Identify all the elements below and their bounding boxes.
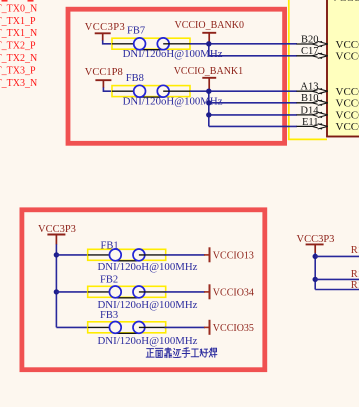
wire FB3 to port bbox=[164, 326, 205, 328]
wire to R3 bbox=[315, 289, 359, 291]
power port VCCIO_BANK0 bbox=[175, 20, 244, 44]
svg-text:VCCO_: VCCO_ bbox=[336, 98, 359, 110]
pin name (cut at top) bbox=[331, 0, 359, 4]
pin C17 bbox=[297, 46, 359, 62]
svg-text:R1: R1 bbox=[351, 269, 359, 280]
ferrite bead FB8 bbox=[112, 85, 190, 97]
svg-text:R1: R1 bbox=[351, 280, 359, 291]
svg-text:FB8: FB8 bbox=[126, 73, 144, 84]
svg-text:FB7: FB7 bbox=[127, 26, 145, 37]
wire FB8 to pin A13 bbox=[190, 90, 297, 92]
wire to pin B10 bbox=[209, 102, 297, 104]
svg-text:FB2: FB2 bbox=[100, 275, 118, 286]
svg-text:VCCIO_BANK0: VCCIO_BANK0 bbox=[175, 20, 244, 31]
wire VCC3P3 to FB7 bbox=[103, 40, 112, 44]
value DNI/120oH@100MHz bbox=[98, 299, 198, 311]
pin B10 bbox=[297, 93, 359, 109]
net label _TX3_N bbox=[0, 78, 37, 89]
wire to FB1 bbox=[56, 254, 87, 256]
pin E11 bbox=[297, 117, 359, 133]
junction FB1 bbox=[54, 252, 59, 257]
wire to pin E11 bbox=[209, 125, 297, 127]
designator FB7 bbox=[127, 26, 145, 37]
power port VCC3P3 (top) bbox=[85, 22, 125, 41]
port VCCIO34 bbox=[204, 284, 254, 299]
designator R1 (cut) bbox=[351, 245, 359, 256]
wire to R1 bbox=[315, 255, 359, 257]
svg-text:VCC3P3: VCC3P3 bbox=[38, 224, 76, 235]
wire FB1 to port bbox=[164, 254, 205, 256]
net label _TX2_P bbox=[0, 41, 36, 52]
wire to pin C17 bbox=[209, 55, 297, 57]
svg-text:VCCIO_BANK1: VCCIO_BANK1 bbox=[174, 66, 243, 77]
svg-text:FB3: FB3 bbox=[100, 310, 118, 321]
value DNI/120oH@100MHz bbox=[98, 261, 198, 273]
net label _TX1_P bbox=[0, 16, 36, 27]
pin B20 bbox=[297, 34, 359, 50]
designator R2 (cut) bbox=[351, 269, 359, 280]
net label _TX1_N bbox=[0, 28, 37, 39]
junction FB2 bbox=[54, 289, 59, 294]
wire vertical bank1 bbox=[208, 91, 210, 126]
net label _TX3_P bbox=[0, 65, 36, 76]
value DNI/120oH@100MHz bbox=[123, 96, 223, 108]
pin A13 bbox=[297, 82, 359, 98]
junction bank1 c bbox=[206, 112, 211, 117]
junction bank1 a bbox=[206, 89, 211, 94]
value DNI/120oH@100MHz bbox=[123, 48, 223, 60]
net label _TX0_N bbox=[0, 3, 37, 14]
svg-text:DNI/120oH@100MHz: DNI/120oH@100MHz bbox=[123, 48, 223, 60]
note text (Chinese): 正面靠边手工好焊 bbox=[146, 348, 217, 358]
ferrite bead FB1 bbox=[88, 249, 166, 261]
wire to FB3 bbox=[56, 326, 87, 328]
junction bank1 b bbox=[206, 100, 211, 105]
svg-text:T_TX3_N: T_TX3_N bbox=[0, 78, 37, 89]
red callout box bottom bbox=[22, 210, 265, 370]
svg-text:VCCO_: VCCO_ bbox=[336, 51, 359, 63]
ferrite bead FB7 bbox=[112, 38, 190, 50]
wire to FB2 bbox=[56, 291, 87, 293]
yellow sheet line bbox=[289, 0, 327, 139]
power port VCC3P3 (right) bbox=[297, 234, 335, 253]
svg-text:T_TX1_N: T_TX1_N bbox=[0, 28, 37, 39]
junction R a bbox=[313, 254, 318, 259]
wire to pin D14 bbox=[209, 114, 297, 116]
wire VCC1P8 to FB8 bbox=[103, 87, 112, 91]
wire FB7 to pins B20 bbox=[190, 43, 297, 45]
svg-text:VCCIO34: VCCIO34 bbox=[213, 288, 254, 299]
svg-text:VCCO_: VCCO_ bbox=[336, 86, 359, 98]
power port VCC1P8 bbox=[85, 67, 123, 88]
IC block U1 (FPGA bank power pins, clipped at right edge) bbox=[327, 0, 359, 137]
svg-text:T_TX2_N: T_TX2_N bbox=[0, 53, 37, 64]
designator FB3 bbox=[100, 310, 118, 321]
power port VCCIO_BANK1 bbox=[174, 66, 243, 91]
pin D14 bbox=[297, 105, 359, 121]
wire FB2 to port bbox=[164, 291, 205, 293]
svg-text:VCC3P3: VCC3P3 bbox=[297, 234, 335, 245]
wire VCC3P3 vertical feed bbox=[55, 244, 57, 327]
svg-text:VCCO_: VCCO_ bbox=[336, 121, 359, 133]
svg-text:R1: R1 bbox=[351, 245, 359, 256]
designator R3 (cut) bbox=[351, 280, 359, 291]
ferrite bead FB2 bbox=[88, 286, 166, 298]
net label _TX2_N bbox=[0, 53, 37, 64]
svg-text:VCCO_: VCCO_ bbox=[336, 39, 359, 51]
port VCCIO13 bbox=[204, 247, 254, 262]
svg-text:VCCO_: VCCO_ bbox=[336, 110, 359, 122]
power port VCC3P3 (bottom box) bbox=[38, 224, 76, 245]
port VCCIO35 bbox=[204, 320, 254, 335]
svg-text:VCCO_: VCCO_ bbox=[331, 0, 359, 4]
svg-text:T_TX0_N: T_TX0_N bbox=[0, 3, 37, 14]
junction R b bbox=[313, 277, 318, 282]
svg-text:T_TX3_P: T_TX3_P bbox=[0, 65, 36, 76]
value DNI/120oH@100MHz bbox=[98, 335, 198, 347]
wire to R2 bbox=[315, 278, 359, 280]
designator FB8 bbox=[126, 73, 144, 84]
wire vertical right bbox=[314, 253, 316, 290]
svg-text:VCCIO35: VCCIO35 bbox=[213, 323, 254, 334]
junction bank0 bbox=[206, 41, 211, 46]
svg-text:T_TX1_P: T_TX1_P bbox=[0, 16, 36, 27]
red callout box top bbox=[68, 9, 285, 143]
designator FB1 bbox=[101, 240, 119, 251]
svg-text:DNI/120oH@100MHz: DNI/120oH@100MHz bbox=[98, 261, 198, 273]
designator FB2 bbox=[100, 275, 118, 286]
ferrite bead FB3 bbox=[88, 322, 166, 334]
svg-text:DNI/120oH@100MHz: DNI/120oH@100MHz bbox=[98, 335, 198, 347]
svg-text:VCC1P8: VCC1P8 bbox=[85, 67, 123, 78]
wire vertical bank0 bbox=[208, 44, 210, 56]
net label _TX0_P (cut off, underline remnant) bbox=[2, 0, 8, 2]
svg-text:VCC3P3: VCC3P3 bbox=[85, 22, 125, 33]
svg-text:VCCIO13: VCCIO13 bbox=[213, 250, 254, 261]
svg-text:T_TX2_P: T_TX2_P bbox=[0, 41, 36, 52]
